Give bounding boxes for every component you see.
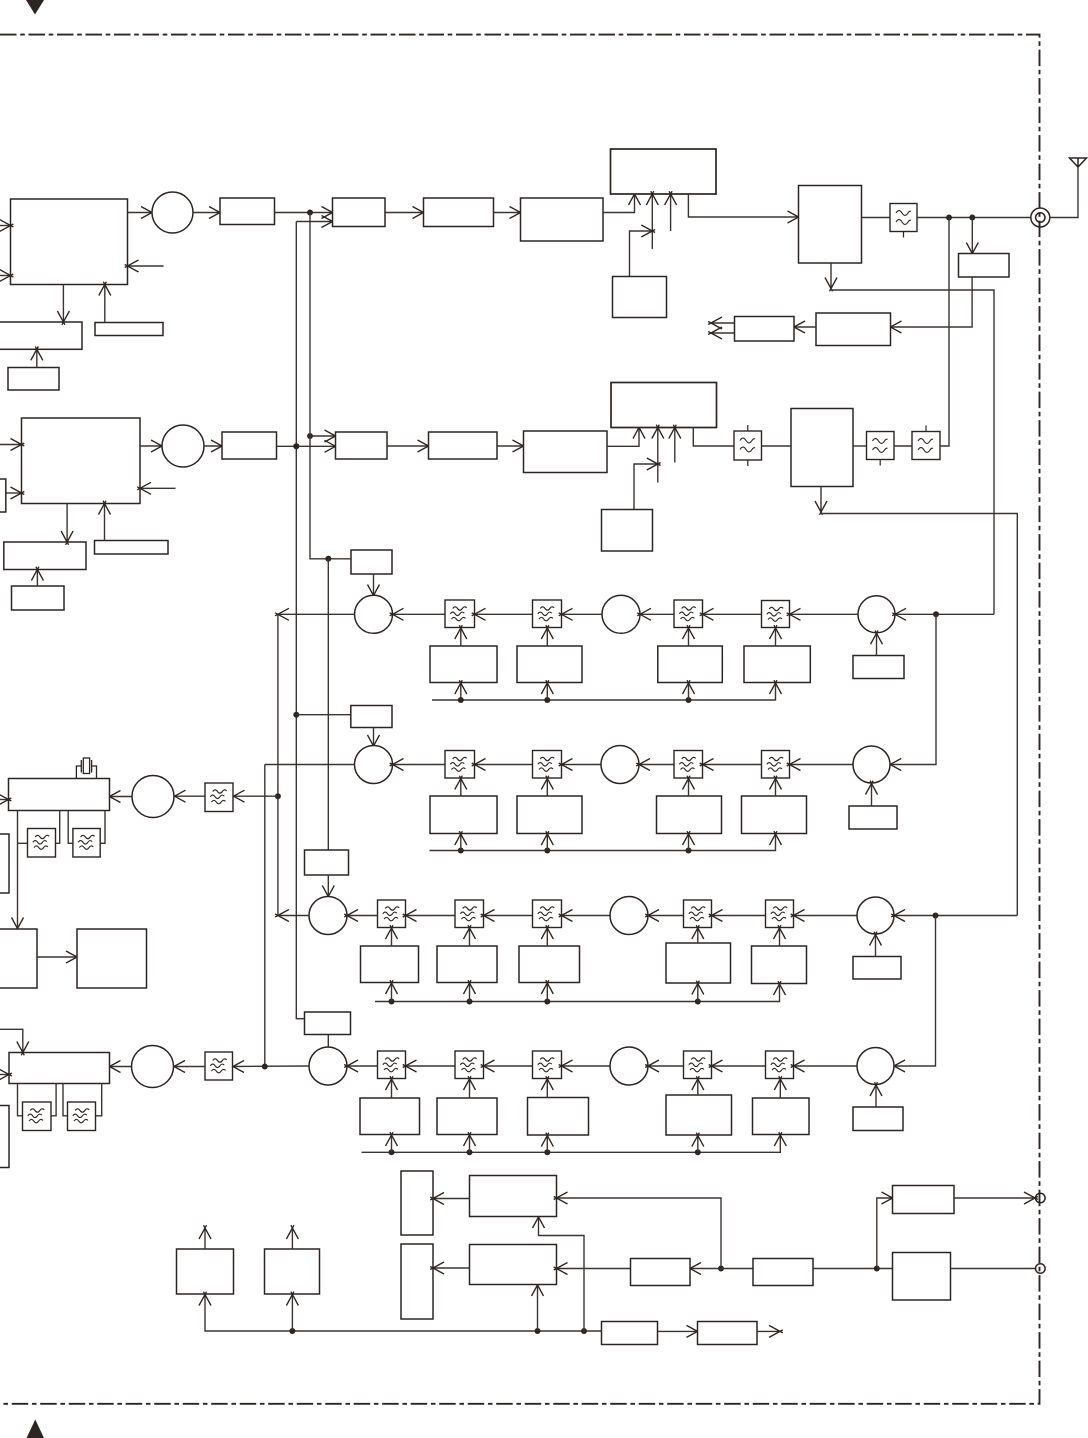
wire FL14 to FL13 [700,608,762,620]
mixer MIX32 (RX row 3) [610,897,648,935]
wire U12 to U1 [99,282,111,323]
audio IC U11 (row 1) [0,322,82,349]
driver U5 (TX row 1) [521,198,604,241]
wire FL43 to FL42 [481,1060,533,1072]
regulator U67 [602,1322,658,1345]
junction node bus4-d [695,1149,701,1155]
wire U66 to connector J3 [951,1268,1037,1270]
oscillator Y15 (RX row 1) [744,646,810,683]
wire Y42 to FL41 [386,1076,398,1098]
wire FL4 up to antenna node [940,218,949,447]
osc Y31 for MIX33 [853,957,901,980]
wire Q2 output sample down [815,487,827,515]
wire U44 leg to FL-C4 right [96,1084,102,1116]
wire X2 to U26 pin-2 line [634,458,661,510]
wire bus V296 to J2 [296,714,351,716]
wire into U26 pin 2 [652,425,664,483]
wire U21 to U31 [61,504,73,545]
LO buffer K1 (RX row 1) [351,550,392,574]
wire U3 to U4 [385,207,426,219]
wire FL21 to MIX21 [390,759,445,771]
band filter FL2 [734,425,762,466]
wire U21 to mixer MIX2 [140,440,165,452]
wire Y36 to FL35 [774,925,786,946]
mixer MIX33 (RX row 3) [857,897,894,934]
junction node bus2-a [458,848,464,854]
wire U42 to U43 [37,951,80,963]
junction node V310-K1 [325,556,331,562]
wire Y43 to FL42 [464,1076,476,1098]
wire Y46 to FL45 [774,1076,786,1098]
mixer MIX23 (RX row 2) [853,746,890,783]
wire bus2 to Y23 [541,831,553,850]
wire X1 to U6 pin-2 line [630,225,656,277]
amp U24 (TX row 2) [429,432,498,459]
osc Y11 for MIX13 [853,656,904,679]
crystal filter FL12 (RX row 1) [533,600,562,628]
wire FL42 to FL41 [403,1060,455,1072]
low-pass filter FL4 [912,426,940,460]
wire input to U41 left [0,794,11,806]
power amp Q1 (TX row 1) [799,186,862,264]
amp U3 (TX row 1) [333,198,386,227]
reference U12 (row 1) [95,323,163,336]
wire control bus (bottom) [205,1294,602,1331]
junction node TX2-a [293,443,299,449]
wire U44 leg to FL-C4 left [63,1084,68,1116]
wire MIX41 out to FL-D4 [233,1065,310,1068]
wire node to U63 [687,1263,753,1275]
junction node RX3-feed [933,913,939,919]
APC U9 [735,317,795,342]
interface U63 [631,1259,691,1286]
crystal filter FL24 (RX row 2) [762,751,790,779]
wire U1 to U11 [57,285,69,325]
wire select bus row 1 [432,683,776,701]
low-pass filter FL1 [890,204,917,238]
mixer MIX42 (RX row 4) [610,1047,648,1085]
arrow bus3 to Y36 [774,981,786,995]
wire U67 to U68 [658,1325,701,1337]
coupler U7 [959,254,1010,278]
antenna ANT1 [1070,158,1087,167]
oscillator Y22 (RX row 2) [430,796,497,834]
wire U41 leg to FL-C2 left [68,811,73,844]
crystal filter FL22 (RX row 2) [533,751,562,779]
reference U32 (row 2) [95,541,169,555]
wire FL32 to FL31 [403,910,455,922]
crystal filter FL23 (RX row 2) [674,751,703,779]
wire U44 leg to FL-C3 left [18,1084,23,1116]
mixer MIX11 (RX row 1) [355,595,393,633]
wire cbus to U62 [532,1282,544,1331]
controller U62 [470,1245,557,1285]
mixer MIX31 (RX row 3) [309,897,347,935]
wire Y33 to FL32 [464,925,476,946]
junction node cbus-b [535,1328,541,1334]
osc Y21 for MIX23 [849,806,897,829]
crystal filter FL45 (RX row 4) [766,1051,794,1079]
wire U9 output A [708,317,734,329]
wire U26 to FL2 [693,428,734,447]
wire Y45 to FL44 [692,1076,704,1095]
ceramic filter FL-C2 [73,829,100,858]
oscillator Y36 (RX row 3) [752,946,807,984]
arrow bus to Y15 [770,680,782,694]
driver U25 (TX row 2) [524,431,608,473]
wire FL22 to FL21 [472,759,533,771]
wire Y32 to FL31 [386,925,398,946]
connector J2 [1036,1193,1046,1203]
wire K4 to mixer MIX41 [327,1035,329,1048]
oscillator U33 (row 2) [12,586,65,610]
arrow into FL-D4 [230,1061,244,1073]
crystal filter FL11 (RX row 1) [445,600,475,628]
wire Y24 to FL23 [683,776,695,796]
junction node bus1-b [544,697,550,703]
wire vertical bus V265 (IF to demod 4) [264,765,266,1067]
wire FL33 to FL32 [481,910,533,922]
wire MIX42 to FL43 [559,1060,610,1072]
wire bus4 to Y42 [386,1132,398,1152]
oscillator Y33 (RX row 3) [437,946,497,983]
wire U6 to PA Q1 [688,194,801,223]
mixer MIX-D4 (demod 4) [132,1046,174,1088]
junction node ANT-a [946,215,952,221]
wire Y22 to FL21 [455,776,467,796]
wire Q2 to FL3 [853,445,867,447]
oscillator Y23 (RX row 2) [517,796,582,834]
wire Y11 to MIX13 [871,631,883,656]
wire input to U44 left [0,1069,12,1081]
wire U9 output B [708,327,734,339]
wire from vertical bus V310 into U3 [296,216,335,228]
oscillator Y44 (RX row 4) [528,1098,589,1136]
junction node TX2-b [307,433,313,439]
wire Y31 to MIX33 [870,932,882,957]
audio IC U31 (row 2) [4,542,86,570]
IF filter FL-D1 [205,783,233,812]
wire bus3 to Y32 [386,980,398,1001]
junction node TX1-a [307,210,313,216]
wire feed into U61 [554,1192,721,1269]
wire FL1 to antenna connector J1 [917,217,1031,219]
oscillator X2 (TX row 2) [602,510,653,552]
wire select bus row 4 [362,1135,781,1153]
wire bus3 to Y33 [464,980,476,1001]
wire Y15 to FL14 [770,625,782,646]
oscillator X1 (TX row 1) [613,277,667,318]
wire bus4 to Y45 [692,1133,704,1153]
wire input A to U21 [0,439,24,451]
oscillator Y35 (RX row 3) [666,943,731,983]
junction node bus4-b [467,1149,473,1155]
interface U64 [753,1259,813,1286]
junction node bus1-c [686,697,692,703]
wire U5 to DET1 pin 1 [603,191,641,212]
wire FL2 to PA Q2 [762,445,792,447]
wire bus to Y14 [683,680,695,700]
junction node bus4-a [389,1149,395,1155]
wire cbus jog to U61 [533,1214,585,1331]
detector U26 (TX row 2) [611,383,717,428]
crystal filter FL31 (RX row 3) [378,900,406,928]
wire MIX22 to FL22 [559,759,601,771]
wire feed down to MIX43 [891,916,935,1073]
wire bus4 to Y44 [541,1133,553,1153]
controller U61 [470,1176,557,1217]
osc Y41 for MIX43 [853,1107,903,1131]
junction node V278-demod [275,793,281,799]
crystal X3 on U41 [76,758,96,779]
wire U8 to U9 [791,321,816,333]
crystal filter FL21 (RX row 2) [445,751,475,779]
wire FL11 to MIX11 [390,608,445,620]
wire U7 to U8 [888,277,972,333]
wire input to U44 top [0,1029,29,1055]
regulator U68 [698,1322,758,1345]
mixer MIX43 (RX row 4) [857,1048,894,1085]
ceramic filter FL-C4 [68,1102,96,1131]
junction node bus2-b [544,848,550,854]
crystal filter FL35 (RX row 3) [766,900,794,928]
power amp Q2 (TX row 2) [791,409,853,487]
IC U1 modulator (TX row 1) [11,199,128,285]
wire U25 to DET2 pin 1 [607,425,645,447]
wire Q1 to FL1 [862,217,891,219]
oscillator Y45 (RX row 4) [666,1095,732,1135]
wire FL12 to FL11 [472,608,533,620]
oscillator Y43 (RX row 4) [437,1098,497,1135]
junction node bus3-b [467,999,473,1005]
wire U63 to U62 [554,1263,631,1275]
APC amp U8 [816,313,891,346]
crystal filter FL14 (RX row 1) [762,601,790,628]
mixer MIX21 (RX row 2) [355,746,393,784]
memory U51 [177,1249,234,1294]
wire node ANT-b down to U7 [966,218,978,257]
crystal filter FL33 (RX row 3) [533,900,562,928]
wire MIX-D1 to U41 [107,791,132,803]
mixer MIX22 (RX row 2) [601,746,639,784]
wire U24 to U25 [497,440,526,452]
wire FL45 to FL44 [709,1060,766,1072]
wire MIX-D4 to U44 [107,1061,132,1073]
LO buffer K4 (RX row 4) [305,1012,351,1035]
arrow bus2 to Y25 [770,831,782,845]
wire MIX11 out to IF bus V278 [275,608,354,620]
crystal filter FL44 (RX row 4) [684,1051,712,1079]
input box U20 (left, cut) [0,479,6,512]
oscillator Y13 (RX row 1) [517,646,582,683]
wire into U6 pin 3 [665,191,677,231]
demod IC U41 [9,779,110,811]
AF amp U10 (left, cut) [0,834,9,893]
junction node ANT-b [969,215,975,221]
crystal filter FL41 (RX row 4) [378,1051,406,1079]
junction node bus1-a [458,697,464,703]
wire U1 to mixer MIX1 [128,207,155,219]
wire TX2 feed to RX rows [821,514,1017,916]
wire vertical bus V296 (TX LO distribute) [296,222,304,1019]
ceramic filter FL-C3 [23,1102,52,1131]
oscillator Y34 (RX row 3) [519,946,580,983]
wire U62 to T2 [430,1262,469,1274]
wire FL31 to MIX31 [344,910,377,922]
wire MIX23 to FL24 [787,759,853,771]
junction node cbus-c [581,1328,587,1334]
junction node ctl-a [718,1266,724,1272]
oscillator Y25 (RX row 2) [742,796,807,834]
wire bus3 to Y35 [692,981,704,1002]
wire select bus row 3 [375,984,780,1002]
wire cbus to U52 [286,1292,298,1331]
mixer MIX12 (RX row 1) [602,595,640,633]
fold mark top (filled triangle) [26,0,44,15]
wire RF feed into MIX13 [892,608,994,620]
AF power amp U43 [77,929,147,988]
wire FL-D1 to MIX-D1 [172,790,205,802]
junction node V296-row2 [293,443,299,449]
mixer MIX-D1 (demod 1) [132,776,174,818]
wire U61 to T1 [430,1193,469,1205]
oscillator Y12 (RX row 1) [430,646,497,683]
wire MIX13 to FL14 [787,608,858,620]
wire Y13 to FL12 [541,625,553,646]
wire Y44 to FL43 [541,1076,553,1097]
wire from vertical bus V310 into U23 [310,430,338,442]
wire into U6 pin 2 [646,191,658,249]
wire V278 to FL-D1 [233,795,278,797]
wire K1 to mixer MIX11 [368,574,380,598]
junction node bus3-a [389,999,395,1005]
wire U44 leg to FL-C3 right [51,1084,56,1116]
wire Y21 to MIX23 [866,781,878,806]
wire Y41 to MIX43 [870,1082,882,1107]
oscillator Y32 (RX row 3) [361,946,419,983]
detector U6 (TX row 1) [611,149,717,194]
wire U68 output [757,1325,783,1337]
AF amp U45 (left, cut) [0,1106,9,1168]
wire FL44 to MIX42 [645,1060,683,1072]
arrow bus to U51 [199,1292,211,1306]
wire U2 to U3 [275,207,336,219]
line driver U66 [893,1253,951,1301]
wire node up to U65 [877,1192,896,1269]
wire U33 to U31 [31,567,43,586]
wire MIX21 out to bus V265 [265,764,355,766]
junction node ctl-b [874,1266,880,1272]
wire Y12 to FL11 [455,625,467,646]
wire input B to U1 [0,270,13,282]
wire MIX31 out to bus V278 [275,910,309,922]
line driver U65 [893,1186,955,1214]
oscillator Y46 (RX row 4) [753,1098,810,1135]
wire U41 to U42 (long) [12,811,24,932]
connector J3 [1036,1264,1046,1274]
display T1 [401,1171,433,1235]
junction node RX1-feed [933,611,939,617]
wire U4 to U5 [494,207,524,219]
LO buffer K3 (RX row 3) [305,850,349,875]
wire FL24 to FL23 [700,759,762,771]
junction node bus2-c [686,848,692,854]
wire MIX1 to U2 [193,207,223,219]
amp U4 (TX row 1) [424,198,494,227]
wire U32 to U21 [99,501,111,541]
wire MIX2 to U22 [204,440,225,452]
wire RF feed into MIX33 [891,910,1017,922]
wire Y34 to FL33 [541,925,553,946]
wire FL35 to FL34 [709,910,766,922]
wire U23 to U24 [387,440,431,452]
junction node V265-demod4 [262,1064,268,1070]
wire U65 to connector J2 [954,1192,1038,1204]
wire FL23 to MIX22 [636,759,674,771]
wire FL34 to MIX32 [645,910,683,922]
mixer MIX41 (RX row 4) [309,1047,347,1085]
ceramic filter FL-C1 [28,829,56,858]
wire U52 output up [286,1225,298,1249]
display T2 [401,1244,433,1319]
wire feed down to MIX23 [887,614,936,770]
wire bus3 to Y34 [541,980,553,1001]
demod IC U44 [9,1053,110,1084]
wire U51 output up [199,1225,211,1249]
junction node V296-J2 [293,712,299,718]
wire Y35 to FL34 [692,925,704,943]
low-pass filter FL3 [867,432,895,466]
wire FL41 to MIX41 [344,1060,377,1072]
crystal filter FL32 (RX row 3) [455,900,484,928]
oscillator Y42 (RX row 4) [360,1098,420,1135]
wire Y14 to FL13 [683,625,695,646]
wire vertical bus V310 [310,213,351,559]
crystal filter FL42 (RX row 4) [455,1051,484,1079]
wire U41 leg to FL-C1 right [56,811,60,844]
wire FL-D4 to MIX-D4 [171,1061,205,1073]
wire U41 leg to FL-C2 right [100,811,105,844]
IF filter FL-D4 [205,1052,233,1080]
wire MIX33 to FL35 [791,910,857,922]
wire U20 to U21 [6,487,25,499]
wire select bus row 2 [430,834,776,851]
wire bus2 to Y24 [683,831,695,850]
AF amp U42 [0,929,37,988]
wire U22 to U23 [277,440,339,452]
wire bus4 to Y43 [464,1132,476,1152]
oscillator Y24 (RX row 2) [657,796,722,834]
wire K3 to mixer MIX31 [322,875,334,899]
wire U64 to U66 [813,1268,893,1270]
wire MIX12 to FL12 [559,608,602,620]
wire stub into U1 right side [125,260,164,272]
wire TX1 feed to RX rows [831,290,994,614]
wire bus to Y12 [455,680,467,700]
amp U22 (TX row 2) [222,432,277,459]
wire stub into U21 right side [137,482,175,494]
wire FL13 to MIX12 [637,608,674,620]
wire FL3 to FL4 [894,445,912,447]
wire MIX32 to FL33 [559,910,610,922]
fold mark bottom (filled triangle) [27,1420,45,1438]
wire into U26 pin 3 [669,425,681,463]
wire MIX43 to FL45 [791,1060,857,1072]
wire vertical bus V328 to K3 [327,559,329,850]
mixer MIX13 (RX row 1) [858,596,895,633]
junction node cbus-a [289,1328,295,1334]
wire bus2 to Y22 [455,831,467,850]
